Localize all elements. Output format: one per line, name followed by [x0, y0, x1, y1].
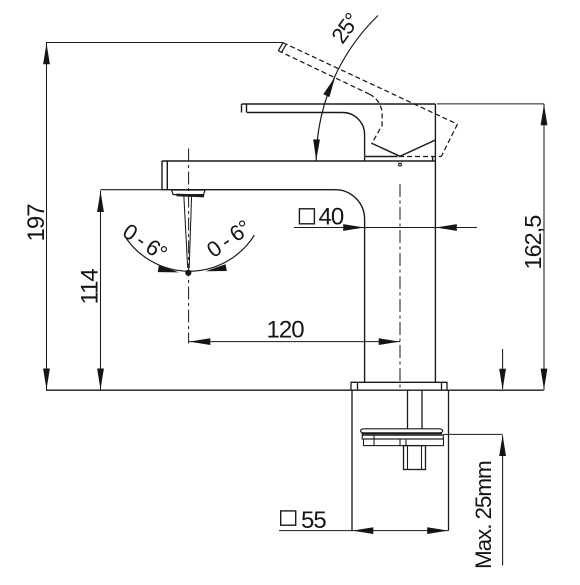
dim 120 line — [189, 341, 400, 343]
mounting nut — [404, 446, 426, 470]
raised lever neck arc — [370, 94, 383, 143]
deck line — [46, 389, 544, 391]
clamp block inner verticals — [374, 435, 406, 445]
arrowheads — [43, 43, 547, 534]
pivot dot — [399, 163, 402, 166]
dim 114 line — [100, 191, 102, 390]
dim max25 reference line — [443, 433, 503, 435]
column right edge — [434, 104, 436, 382]
svg-text:55: 55 — [301, 507, 326, 534]
svg-text:114: 114 — [77, 269, 104, 305]
lever V notch (solid) — [371, 140, 435, 156]
svg-text:0 - 6°: 0 - 6° — [118, 218, 171, 265]
0-6deg dimension arc — [126, 235, 254, 271]
dim 197 line — [46, 43, 48, 390]
aerator — [172, 190, 206, 195]
faucet body outline: spout top — [162, 160, 435, 162]
aerator centerline (dash-dot) — [188, 149, 190, 344]
25deg arc arrows — [323, 75, 338, 97]
dim 40 line — [294, 227, 477, 229]
dim 55 square symbol — [281, 511, 296, 525]
nut inner lines — [408, 446, 422, 470]
40 arrows — [343, 224, 364, 231]
0-6deg arc arrows — [158, 265, 180, 275]
0-6deg vertex dot — [185, 270, 191, 276]
washer plate 1 — [361, 429, 443, 433]
dim 197 top extension line — [46, 42, 283, 44]
114 arrows — [97, 191, 104, 212]
dim max25 lower line — [502, 435, 504, 565]
clamp block row — [364, 439, 444, 446]
column centerline (dash-dot) — [399, 184, 401, 390]
svg-text:162,5: 162,5 — [520, 215, 546, 270]
svg-text:25°: 25° — [326, 9, 364, 48]
raised lever bottom dashed segment — [399, 156, 441, 158]
lever tip end cap — [242, 104, 247, 113]
dim 162.5 line — [543, 104, 545, 390]
197 arrows — [43, 43, 50, 64]
svg-text:197: 197 — [23, 204, 50, 242]
max25 arrows — [499, 369, 506, 390]
svg-text:0 - 6°: 0 - 6° — [202, 215, 255, 262]
svg-text:Max. 25mm: Max. 25mm — [471, 461, 496, 569]
washer plate 2 — [362, 435, 443, 439]
spray cone lines — [184, 195, 192, 268]
dim 162.5 extension line — [437, 103, 544, 105]
cartridge band — [365, 157, 433, 162]
threaded shank — [408, 390, 423, 429]
raised lever (dashed) top edge 25deg — [283, 43, 457, 125]
lever handle (horizontal): top line — [242, 103, 436, 105]
dim max25 upper line — [502, 349, 504, 389]
raised lever bottom edge — [278, 51, 369, 94]
aerator screen (thick) — [177, 195, 205, 196]
lever bottom line with neck curve — [247, 113, 365, 156]
svg-text:40: 40 — [319, 203, 344, 230]
washer plate 1 thick bottom — [362, 432, 443, 434]
dim 55 line — [279, 530, 449, 532]
spout end cap — [162, 161, 167, 190]
162.5 arrows — [541, 104, 548, 125]
deck flange — [351, 382, 447, 390]
spout bottom and column left edge — [162, 190, 365, 383]
55 arrows — [352, 527, 373, 534]
dim 40 square symbol — [299, 209, 314, 224]
25deg dimension arc — [316, 16, 378, 161]
120 arrows — [189, 338, 210, 345]
raised lever tip cap — [278, 43, 286, 53]
dim 114 extension line — [101, 189, 164, 191]
svg-text:120: 120 — [267, 317, 305, 344]
below-deck box — [352, 390, 449, 530]
raised lever right end edge — [441, 124, 457, 156]
